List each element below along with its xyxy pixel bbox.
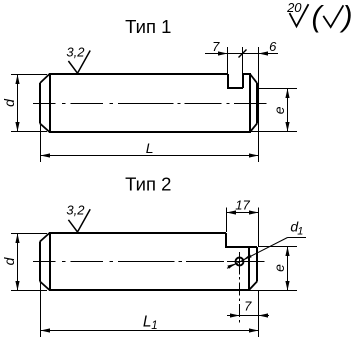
top line xyxy=(50,232,226,234)
svg-text:3,2: 3,2 xyxy=(66,45,85,60)
svg-text:L: L xyxy=(146,140,154,156)
dimension 17 type 2: extension lines xyxy=(227,208,259,247)
dimension 7 type 2: arrows xyxy=(230,313,240,317)
dimension 7 type 2: dimension line xyxy=(227,315,269,317)
leader d1: line and shelf xyxy=(227,238,306,269)
right end face xyxy=(256,247,258,282)
flat top of stepped end xyxy=(225,246,257,248)
dimension e type 2: arrows xyxy=(285,247,289,257)
svg-text:d: d xyxy=(1,256,17,265)
dimension 17 type 2: arrows xyxy=(227,210,237,214)
roughness check on type 2 xyxy=(68,209,90,232)
slot left edge xyxy=(227,74,229,88)
top line xyxy=(50,73,228,75)
leader d1: arrows at hole xyxy=(244,254,252,259)
dimension L1 type 2: extension lines xyxy=(41,283,259,337)
pin type 2 outline: straight segments xyxy=(40,232,257,291)
dimension L1 type 2: arrows xyxy=(41,328,51,332)
svg-text:6: 6 xyxy=(269,39,277,54)
svg-text:Тип 2: Тип 2 xyxy=(125,174,171,195)
dimension L type 1: arrows xyxy=(41,153,51,157)
svg-text:7: 7 xyxy=(244,298,252,313)
step down edge xyxy=(225,233,227,247)
centerline axis type 1 xyxy=(33,103,267,105)
left chamfer boundary xyxy=(49,232,51,291)
hole d1 vertical centerline xyxy=(239,252,241,323)
bottom line xyxy=(50,289,249,291)
surface roughness corner check symbol xyxy=(290,4,309,26)
bottom line xyxy=(50,131,250,133)
svg-text:3,2: 3,2 xyxy=(66,203,85,218)
slot right edge xyxy=(242,73,244,88)
dimension d type 2: extension lines xyxy=(11,234,47,291)
left chamfer boundary xyxy=(49,73,51,133)
centerline axis type 2 xyxy=(33,261,265,263)
hole d1 horizontal centerline xyxy=(231,261,249,263)
pin type 1 chamfer diagonals xyxy=(40,74,257,132)
right chamfer boundary xyxy=(248,247,250,291)
svg-text:L: L xyxy=(143,313,152,330)
dimension d type 1: extension lines xyxy=(11,75,47,132)
dimension 6 type 1: extension line xyxy=(258,47,260,162)
roughness check on type 1 xyxy=(68,51,90,74)
right chamfer boundary xyxy=(249,73,251,133)
right end face xyxy=(256,83,258,124)
svg-text:e: e xyxy=(271,106,287,114)
dimension d type 1: arrows xyxy=(15,75,19,85)
pin type 1 outline: straight segments xyxy=(40,73,257,133)
dimension L type 1: extension and dimension lines xyxy=(41,125,259,162)
dimension e type 1: arrows xyxy=(285,89,289,99)
svg-text:e: e xyxy=(271,264,287,272)
left end face xyxy=(39,242,41,282)
slot bottom xyxy=(227,87,243,89)
pin type 2 chamfer diagonals xyxy=(40,233,257,290)
dimension e type 1: extension lines xyxy=(251,89,297,132)
svg-text:1: 1 xyxy=(297,225,303,237)
svg-text:d: d xyxy=(1,98,17,107)
parenthesized check: check mark xyxy=(323,5,343,27)
svg-text:1: 1 xyxy=(151,320,157,332)
hole d1 circle xyxy=(236,258,244,266)
dimension d type 2: arrows xyxy=(15,234,19,244)
svg-text:17: 17 xyxy=(235,197,250,212)
dimension 6 type 1: arrow xyxy=(259,51,269,55)
svg-text:Тип 1: Тип 1 xyxy=(125,16,171,37)
dimension 7 type 1: arrow and slash xyxy=(218,51,228,55)
dimension 7 type 1: extension lines xyxy=(205,47,278,73)
svg-text:20: 20 xyxy=(286,0,302,15)
svg-text:7: 7 xyxy=(212,39,220,54)
dimension e type 2: extension lines xyxy=(250,247,297,291)
top line right segment xyxy=(243,73,250,75)
left end face xyxy=(39,83,41,124)
